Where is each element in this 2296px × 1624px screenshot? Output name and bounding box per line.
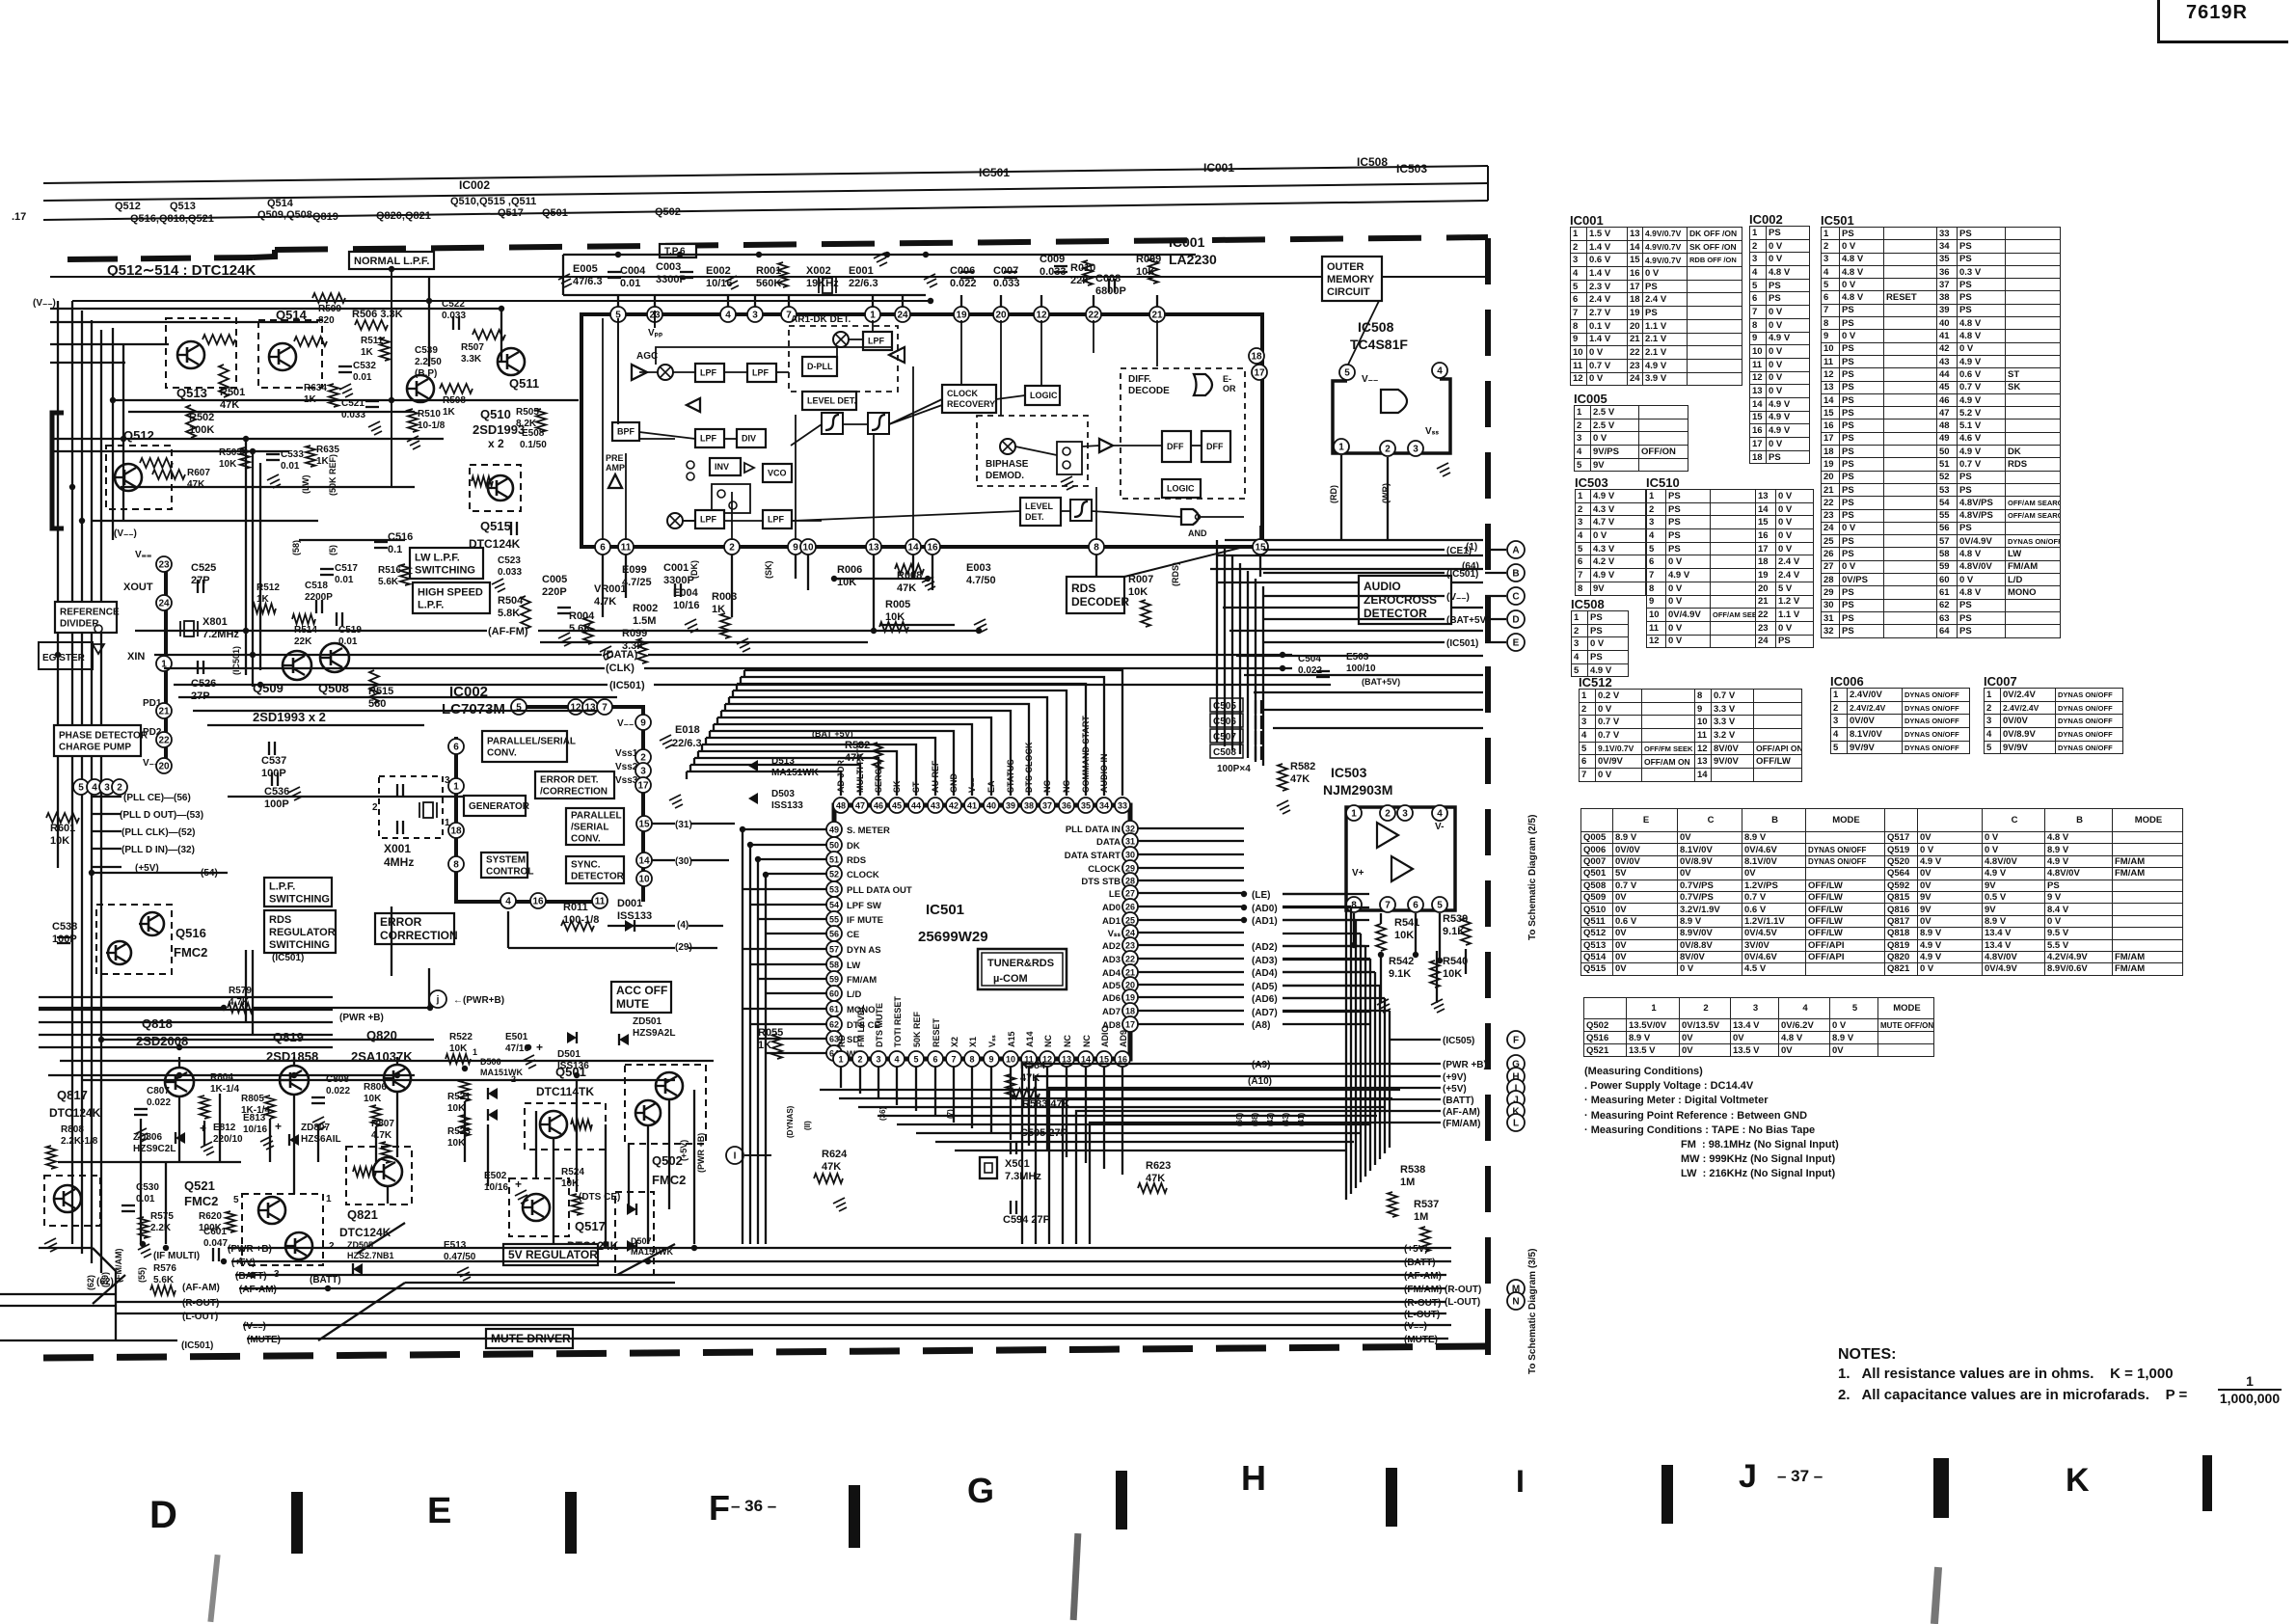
svg-text:14: 14	[638, 856, 650, 867]
IC002 pins 4 16 11	[500, 893, 608, 908]
resistor R623	[1138, 1160, 1171, 1193]
svg-text:1: 1	[1338, 443, 1344, 453]
svg-text:2: 2	[117, 783, 122, 794]
svg-text:(AF-AM): (AF-AM)	[182, 1283, 220, 1293]
svg-text:(PWR +B): (PWR +B)	[696, 1133, 706, 1173]
svg-text:4.7/25: 4.7/25	[622, 577, 652, 588]
IC001 top component labels	[573, 254, 1161, 297]
svg-text:AGC: AGC	[636, 351, 658, 362]
svg-text:560: 560	[368, 698, 386, 710]
svg-text:15: 15	[1255, 543, 1266, 554]
svg-text:R505: R505	[516, 407, 539, 418]
svg-text:3: 3	[752, 311, 758, 321]
svg-text:PLL DATA OUT: PLL DATA OUT	[847, 885, 912, 896]
svg-text:LC7073M: LC7073M	[442, 701, 505, 717]
svg-text:10K: 10K	[1128, 586, 1148, 598]
svg-text:11: 11	[595, 897, 606, 907]
svg-text:(PLL CE)—(56): (PLL CE)—(56)	[123, 793, 191, 803]
svg-text:34: 34	[1099, 801, 1109, 811]
svg-text:52: 52	[829, 870, 839, 880]
left bottom IC001 components	[542, 562, 737, 663]
transistor Q515	[470, 465, 521, 511]
svg-text:RDS: RDS	[847, 855, 866, 866]
svg-text:0.033: 0.033	[341, 410, 365, 420]
svg-text:(LE): (LE)	[1252, 890, 1270, 901]
IC001 wires internal	[603, 318, 1260, 540]
box PHASE DETECTOR CHARGE PUMP	[54, 725, 141, 756]
svg-text:IC503: IC503	[1396, 162, 1427, 176]
svg-text:Q516,Q818,Q521: Q516,Q818,Q521	[130, 213, 214, 225]
svg-text:AD2: AD2	[1102, 941, 1121, 952]
zener ZD807	[289, 1123, 341, 1146]
resistors below IC001	[837, 562, 1153, 632]
capacitor C504	[1298, 654, 1330, 677]
svg-text:Q817: Q817	[57, 1088, 88, 1102]
svg-text:R507: R507	[461, 342, 484, 353]
svg-text:IF MUTE: IF MUTE	[847, 915, 883, 926]
voltage table IC512	[1579, 675, 1612, 690]
svg-text:2200P: 2200P	[305, 592, 333, 603]
svg-text:REGULATOR: REGULATOR	[269, 927, 336, 938]
svg-text:4: 4	[505, 897, 511, 907]
svg-text:E: E	[1513, 638, 1520, 649]
svg-text:6: 6	[600, 543, 606, 554]
zener ZD505	[347, 1240, 394, 1275]
svg-text:C536: C536	[264, 786, 289, 798]
IC001 pins right 18 17	[1249, 348, 1267, 380]
svg-text:0.033: 0.033	[442, 311, 466, 321]
svg-text:R011: R011	[563, 902, 588, 913]
svg-text:R524: R524	[561, 1167, 584, 1177]
svg-text:10: 10	[638, 875, 650, 885]
svg-text:CLOCK: CLOCK	[947, 389, 978, 398]
svg-text:XIN: XIN	[127, 651, 145, 663]
svg-text:58: 58	[829, 961, 839, 970]
wire IC508 down	[1341, 455, 1388, 540]
box ERROR CORRECTION	[375, 913, 454, 944]
wire top rail to pins	[618, 295, 1157, 307]
svg-text:Q509: Q509	[253, 681, 284, 695]
switch 3	[1057, 442, 1082, 490]
svg-text:18: 18	[1125, 1007, 1135, 1016]
svg-text:53: 53	[829, 885, 839, 895]
svg-text:(36): (36)	[878, 1106, 887, 1121]
svg-text:0.01: 0.01	[620, 278, 640, 289]
svg-text:To Schematic Diagram (3/5): To Schematic Diagram (3/5)	[1527, 1249, 1538, 1374]
box VCO	[763, 464, 792, 482]
svg-text:Q510: Q510	[480, 407, 511, 421]
svg-text:LEVEL: LEVEL	[1025, 501, 1054, 511]
svg-text:←(PWR+B): ←(PWR+B)	[453, 995, 504, 1006]
capacitor C537	[261, 742, 286, 779]
svg-text:DIVIDER: DIVIDER	[60, 619, 99, 630]
svg-text:5.8K: 5.8K	[498, 608, 520, 619]
svg-text:47K: 47K	[1290, 773, 1310, 785]
svg-text:(BATT): (BATT)	[1404, 1258, 1436, 1268]
svg-text:49: 49	[829, 826, 839, 835]
mixer X 3	[667, 513, 683, 528]
wires IC002 nets right	[508, 824, 735, 948]
box OUTER MEMORY CIRCUIT	[1322, 257, 1382, 301]
label IC002 LC7073M	[442, 684, 505, 717]
svg-text:3.3K: 3.3K	[461, 354, 482, 365]
wires IC503 to resistors	[1354, 913, 1466, 1003]
svg-text:LEVEL DET.: LEVEL DET.	[807, 396, 856, 406]
svg-text:Q516: Q516	[176, 926, 206, 940]
svg-text:E099: E099	[622, 564, 647, 576]
svg-text:C: C	[1512, 592, 1519, 603]
capacitor stack C505-C508	[1210, 698, 1261, 774]
switch 2	[712, 484, 750, 513]
svg-text:R522: R522	[449, 1032, 473, 1042]
svg-text:DK: DK	[847, 841, 860, 852]
svg-text:PARALLEL: PARALLEL	[571, 811, 622, 822]
svg-text:E501: E501	[505, 1032, 528, 1042]
svg-text:24: 24	[158, 599, 170, 609]
svg-text:HZS6AIL: HZS6AIL	[301, 1134, 341, 1145]
svg-text:820: 820	[318, 315, 335, 326]
svg-text:10-1/8: 10-1/8	[418, 420, 446, 431]
svg-text:(A9): (A9)	[1252, 1060, 1270, 1070]
svg-text:47K: 47K	[187, 479, 205, 490]
svg-text:C533: C533	[281, 449, 304, 460]
wire left vertical bundle	[58, 301, 123, 1273]
svg-text:(CE1): (CE1)	[1446, 546, 1472, 556]
box SYNC. DETECTOR	[566, 856, 624, 883]
svg-text:LPF SW: LPF SW	[847, 901, 881, 911]
svg-text:NC: NC	[1063, 1035, 1072, 1047]
svg-text:AUDIO: AUDIO	[1364, 580, 1401, 593]
svg-text:BIPHASE: BIPHASE	[986, 459, 1029, 470]
resistor R804	[200, 1072, 239, 1119]
capacitor E813	[243, 1113, 282, 1150]
svg-text:9.1K: 9.1K	[1389, 968, 1411, 980]
svg-text:AR1-DK DET.: AR1-DK DET.	[791, 314, 851, 325]
svg-text:10K: 10K	[1394, 930, 1414, 941]
box REGISTER	[39, 642, 93, 669]
IC503 opamp 2	[1391, 856, 1413, 881]
svg-text:(FM/AM): (FM/AM)	[1443, 1119, 1480, 1129]
svg-text:EGISTER: EGISTER	[42, 653, 86, 663]
svg-text:22K: 22K	[294, 636, 312, 647]
svg-text:1: 1	[1351, 809, 1357, 820]
svg-text:47K: 47K	[822, 1161, 841, 1173]
svg-text:R540: R540	[1443, 956, 1468, 967]
tri left	[687, 398, 700, 412]
svg-text:ADIO: ADIO	[1100, 1026, 1110, 1048]
svg-text:47K: 47K	[1146, 1173, 1165, 1184]
svg-text:4.7/50: 4.7/50	[966, 575, 996, 586]
svg-text:25: 25	[1125, 916, 1135, 926]
box LPF f	[763, 510, 792, 528]
voltage table IC001	[1570, 213, 1604, 228]
svg-text:HZS9A2L: HZS9A2L	[633, 1028, 675, 1039]
svg-text:R008: R008	[897, 570, 922, 582]
svg-text:Vₛₛ: Vₛₛ	[1425, 426, 1439, 437]
svg-text:13: 13	[868, 543, 879, 554]
box D-PLL	[802, 357, 837, 376]
svg-text:DFF: DFF	[1206, 442, 1224, 451]
svg-text:ZD501: ZD501	[633, 1016, 662, 1027]
svg-text:100P×4: 100P×4	[1217, 764, 1251, 774]
svg-text:(IC501): (IC501)	[181, 1340, 213, 1351]
svg-text:Q501: Q501	[542, 207, 568, 219]
E-OR gate	[1194, 374, 1236, 395]
svg-text:CLOCK: CLOCK	[1088, 864, 1121, 875]
net labels DATA CLK IC501 mid	[488, 626, 645, 691]
svg-text:30: 30	[1125, 851, 1135, 860]
svg-text:2: 2	[1385, 445, 1391, 455]
IC501 top pin row	[833, 798, 1130, 813]
capacitor C594	[1003, 1201, 1050, 1226]
svg-text:(AD2): (AD2)	[1252, 942, 1278, 953]
svg-text:X2: X2	[950, 1037, 959, 1047]
IC002 pin 18	[448, 823, 464, 838]
svg-text:DET.: DET.	[1025, 512, 1044, 522]
svg-text:DTS MUTE: DTS MUTE	[875, 1003, 884, 1047]
capacitor C536	[264, 772, 289, 810]
svg-text:FMC2: FMC2	[184, 1194, 218, 1208]
svg-text:R576: R576	[153, 1263, 176, 1274]
svg-text:R584: R584	[1020, 1060, 1046, 1071]
pin 21	[156, 703, 172, 718]
transistor Q817	[44, 1176, 100, 1226]
pins 5 4 3 2	[73, 779, 127, 795]
svg-text:Vₛₛ: Vₛₛ	[987, 1035, 997, 1047]
svg-text:A: A	[1512, 546, 1519, 556]
IC002 pin 5	[511, 699, 527, 715]
svg-text:9: 9	[988, 1055, 993, 1065]
label IC001 LA2230	[1169, 234, 1217, 267]
svg-text:LE: LE	[1109, 889, 1121, 900]
svg-text:21: 21	[158, 707, 170, 717]
resistor R582	[1277, 761, 1315, 814]
box LPF e	[695, 510, 724, 528]
rail IC labels	[459, 155, 1427, 192]
IC001 top pins	[610, 307, 1165, 322]
box LW L.P.F. SWITCHING	[410, 548, 483, 579]
svg-text:(A10): (A10)	[1248, 1076, 1272, 1087]
svg-text:E503: E503	[1346, 652, 1369, 663]
svg-text:XOUT: XOUT	[123, 582, 153, 593]
svg-text:220/10: 220/10	[213, 1134, 243, 1145]
wire nested right fan of IC501	[1283, 894, 1390, 1200]
rail component-location labels	[12, 196, 681, 225]
ground C533	[267, 474, 281, 488]
svg-text:(+5V): (+5V)	[679, 1140, 689, 1161]
svg-text:(+5V): (+5V)	[1404, 1244, 1428, 1255]
transistor Q508	[320, 643, 349, 672]
svg-text:R515: R515	[368, 686, 393, 697]
svg-text:R001: R001	[756, 265, 781, 277]
svg-text:51: 51	[829, 855, 839, 865]
svg-text:10K: 10K	[364, 1094, 382, 1104]
dashed border right	[1485, 238, 1491, 1355]
svg-text:AD5: AD5	[1102, 981, 1121, 991]
svg-text:D001: D001	[617, 898, 642, 909]
wire bottom-left corner entries	[0, 1248, 177, 1340]
box LEVEL DET	[802, 392, 856, 410]
PRE AMP	[606, 453, 625, 488]
resistor R516	[378, 564, 410, 587]
svg-text:LOGIC: LOGIC	[1167, 484, 1195, 494]
wire left bus lines upper	[39, 997, 430, 1162]
label Vcc arrow	[648, 311, 662, 338]
svg-text:(IC501): (IC501)	[1446, 569, 1478, 580]
svg-text:5.6K: 5.6K	[378, 577, 399, 587]
svg-text:CONTROL: CONTROL	[486, 867, 533, 878]
svg-text:5: 5	[913, 1055, 918, 1065]
svg-text:47: 47	[855, 801, 865, 811]
svg-text:C001: C001	[663, 562, 689, 574]
svg-text:E018: E018	[675, 724, 700, 736]
svg-text:OR: OR	[1223, 384, 1236, 393]
resistor R511	[361, 336, 390, 361]
svg-text:(AD4): (AD4)	[1252, 968, 1278, 979]
transistor Q821 upper	[346, 1147, 412, 1204]
svg-text:21: 21	[1125, 968, 1135, 978]
svg-text:Q820,Q821: Q820,Q821	[376, 210, 431, 222]
dashed border bottom	[43, 1346, 1488, 1358]
dashed DIFF DECODE	[1121, 368, 1245, 499]
svg-text:HZS2.7NB1: HZS2.7NB1	[347, 1251, 394, 1260]
svg-text:1K: 1K	[443, 407, 456, 418]
left edge cut block	[52, 413, 64, 528]
svg-text:(59): (59)	[100, 1272, 110, 1287]
svg-text:ERROR DET.: ERROR DET.	[540, 775, 599, 786]
svg-text:R635: R635	[316, 445, 339, 455]
svg-text:V₋₋: V₋₋	[1362, 374, 1378, 385]
resistor R011	[561, 902, 599, 931]
svg-text:R501: R501	[220, 387, 245, 398]
voltage table IC006	[1830, 674, 1864, 689]
svg-text:25699W29: 25699W29	[918, 929, 988, 945]
resistor R532	[845, 740, 882, 770]
svg-text:59: 59	[829, 975, 839, 985]
svg-text:PARALLEL/SERIAL: PARALLEL/SERIAL	[487, 737, 576, 747]
svg-text:4.7K: 4.7K	[371, 1130, 392, 1141]
svg-text:L.P.F.: L.P.F.	[418, 599, 444, 610]
diode pump	[93, 625, 104, 654]
svg-text:R004: R004	[569, 610, 595, 622]
svg-text:18: 18	[1251, 352, 1262, 363]
svg-text:(V₋₋): (V₋₋)	[114, 528, 137, 539]
wire IC002 pin spine	[75, 564, 166, 787]
svg-text:MA151WK: MA151WK	[480, 1068, 524, 1077]
svg-text:HZS9C2L: HZS9C2L	[133, 1144, 176, 1154]
svg-text:(MUTE): (MUTE)	[247, 1335, 281, 1345]
svg-text:Q514: Q514	[276, 308, 308, 322]
svg-text:3: 3	[640, 767, 646, 777]
svg-text:E813: E813	[243, 1113, 266, 1123]
box RDS REGULATOR SWITCHING	[264, 910, 336, 953]
svg-text:AND: AND	[1188, 528, 1207, 538]
svg-text:54: 54	[829, 901, 839, 910]
voltage table IC503	[1575, 475, 1608, 490]
IC002 pins 12 13 7	[568, 699, 612, 715]
svg-text:X501: X501	[1005, 1158, 1030, 1170]
IC508 pins 1 2 3	[1334, 426, 1439, 456]
svg-text:11: 11	[621, 543, 632, 554]
svg-text:47K: 47K	[897, 582, 916, 594]
svg-text:DATA START: DATA START	[1065, 851, 1121, 861]
svg-text:(AF-AM): (AF-AM)	[1443, 1107, 1480, 1118]
top rail right connector	[1487, 166, 1489, 201]
svg-text:10K: 10K	[837, 577, 856, 588]
svg-text:x 2: x 2	[488, 437, 504, 450]
IC002 pin 10	[636, 871, 652, 886]
svg-text:24: 24	[1125, 929, 1135, 938]
wire IC501 bundle verticals left-mid	[246, 277, 501, 687]
svg-text:RESET: RESET	[932, 1017, 941, 1047]
svg-text:AD3: AD3	[1102, 955, 1121, 965]
svg-text:(R-OUT): (R-OUT)	[1404, 1298, 1441, 1309]
IC508 ground	[1437, 463, 1450, 476]
svg-text:PHASE DETECTOR: PHASE DETECTOR	[59, 731, 149, 742]
capacitor C530	[122, 1182, 159, 1211]
resistor R540	[1430, 956, 1468, 988]
svg-text:22: 22	[1088, 311, 1099, 321]
IC002 pin 15	[636, 816, 652, 831]
capacitor C516	[374, 531, 413, 555]
svg-text:(IC501): (IC501)	[231, 646, 241, 675]
svg-text:(4): (4)	[677, 920, 689, 931]
svg-text:Q511: Q511	[509, 376, 539, 391]
svg-text:AD4: AD4	[1102, 968, 1121, 979]
box L.P.F. SWITCHING	[264, 878, 332, 907]
svg-text:(62): (62)	[86, 1275, 95, 1290]
svg-text:1M: 1M	[1400, 1177, 1415, 1188]
svg-text:/SERIAL: /SERIAL	[571, 823, 608, 833]
svg-text:R808: R808	[61, 1124, 84, 1135]
net RD WR vertical	[1329, 483, 1391, 503]
svg-text:10/16: 10/16	[243, 1124, 267, 1135]
diode D001	[617, 898, 652, 932]
svg-text:SWITCHING: SWITCHING	[415, 564, 475, 576]
top rail line 2	[43, 183, 1488, 201]
resistor R515	[368, 670, 393, 710]
svg-text:1K: 1K	[361, 347, 374, 358]
svg-text:R510: R510	[418, 409, 441, 420]
svg-text:R007: R007	[1128, 574, 1153, 585]
svg-text:8: 8	[453, 860, 459, 871]
wire IC001 component rail upper	[563, 255, 1196, 295]
svg-text:DECODER: DECODER	[1071, 595, 1129, 609]
svg-text:CHARGE PUMP: CHARGE PUMP	[59, 743, 131, 753]
svg-text:16: 16	[927, 543, 938, 554]
svg-text:(RD): (RD)	[1329, 485, 1338, 503]
svg-text:R623: R623	[1146, 1160, 1171, 1172]
svg-text:(+9V): (+9V)	[1443, 1072, 1467, 1083]
svg-text:(V₋₋): (V₋₋)	[1404, 1321, 1427, 1332]
svg-text:SYNC.: SYNC.	[571, 860, 601, 871]
svg-text:C538: C538	[52, 921, 77, 933]
wire diagonal links bottom	[93, 1223, 675, 1340]
ground Q817	[44, 1238, 58, 1252]
svg-text:23: 23	[1125, 941, 1135, 951]
svg-text:(AD1): (AD1)	[1252, 916, 1278, 927]
capacitor E502	[484, 1171, 528, 1204]
resistor R579	[228, 986, 253, 1013]
svg-text:0.01: 0.01	[136, 1194, 155, 1204]
ground Q515	[492, 579, 505, 592]
svg-text:C525: C525	[191, 562, 216, 574]
capacitor C526	[191, 661, 216, 702]
svg-text:20: 20	[995, 311, 1007, 321]
svg-text:DTS STB: DTS STB	[1081, 877, 1121, 887]
svg-text:E812: E812	[213, 1123, 236, 1133]
svg-text:C506: C506	[1213, 717, 1236, 727]
